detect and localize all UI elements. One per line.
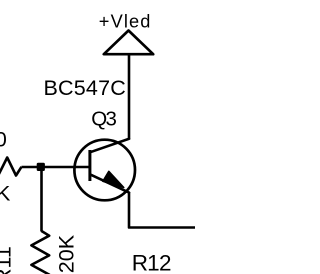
transistor Q3 emitter line — [90, 174, 129, 192]
wire junction to R11 — [40, 167, 43, 232]
resistor R11 20K (vertical) — [31, 231, 49, 274]
svg-text:R11: R11 — [0, 246, 16, 274]
power symbol +Vled triangle — [104, 31, 153, 55]
resistor R10 (partially visible, horizontal) — [0, 158, 22, 176]
transistor Q3 body circle — [74, 140, 135, 201]
wire emitter down and to R12 — [129, 192, 196, 228]
svg-text:R10: R10 — [0, 127, 7, 151]
transistor Q3 base bar — [88, 150, 91, 181]
svg-text:Q3: Q3 — [91, 107, 116, 130]
svg-text:20K: 20K — [54, 234, 78, 273]
transistor Q3 — [74, 139, 135, 200]
svg-text:+Vled: +Vled — [99, 11, 152, 31]
svg-text:10K: 10K — [0, 181, 11, 205]
svg-text:BC547C: BC547C — [44, 76, 126, 100]
transistor Q3 collector line — [90, 139, 129, 153]
wire base — [22, 166, 89, 169]
transistor Q3 emitter arrow — [103, 171, 124, 187]
svg-text:R12: R12 — [132, 251, 171, 274]
junction dot — [37, 163, 45, 171]
wire collector to +Vled — [128, 54, 131, 139]
